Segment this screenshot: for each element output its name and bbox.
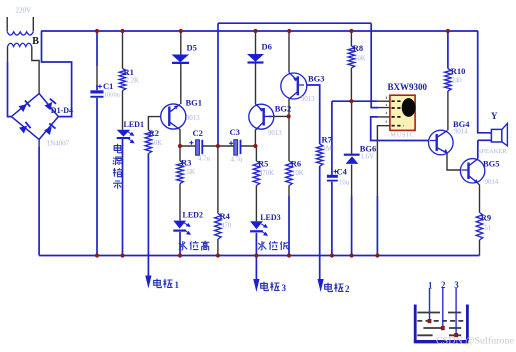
- svg-text:1N4007: 1N4007: [47, 140, 70, 148]
- svg-text:R2: R2: [149, 128, 159, 138]
- svg-text:C4: C4: [337, 167, 348, 177]
- svg-text:240: 240: [452, 78, 463, 85]
- svg-text:2.2K: 2.2K: [126, 78, 139, 85]
- svg-text:LED3: LED3: [260, 213, 280, 222]
- svg-text:LED1: LED1: [124, 120, 144, 129]
- svg-text:4.7u: 4.7u: [198, 156, 210, 163]
- svg-text:C1: C1: [103, 81, 113, 91]
- svg-text:R9: R9: [481, 213, 491, 223]
- svg-text:51: 51: [485, 225, 492, 232]
- svg-text:BG3: BG3: [308, 74, 325, 84]
- svg-text:R6: R6: [291, 159, 301, 169]
- svg-text:BG2: BG2: [275, 104, 292, 114]
- svg-text:2: 2: [441, 280, 446, 290]
- svg-text:220V: 220V: [16, 7, 32, 15]
- svg-text:BG1: BG1: [186, 98, 203, 108]
- svg-text:MUSIC: MUSIC: [391, 133, 415, 139]
- svg-text:D1-D4: D1-D4: [51, 106, 73, 115]
- svg-text:BG4: BG4: [453, 119, 470, 129]
- svg-text:D5: D5: [187, 43, 197, 53]
- svg-text:9013: 9013: [186, 115, 200, 122]
- svg-text:BXW9300: BXW9300: [388, 82, 428, 92]
- svg-text:R5: R5: [258, 159, 268, 169]
- svg-text:R8: R8: [353, 43, 363, 53]
- svg-text:1.6V: 1.6V: [361, 154, 374, 161]
- svg-text:470K: 470K: [259, 170, 274, 177]
- svg-text:Y: Y: [491, 111, 498, 121]
- svg-text:10K: 10K: [151, 140, 163, 147]
- svg-text:3: 3: [282, 283, 287, 293]
- svg-text:BG5: BG5: [483, 159, 500, 169]
- svg-text:1M: 1M: [323, 146, 332, 153]
- svg-text:C3: C3: [230, 127, 240, 137]
- svg-text:R1: R1: [124, 67, 134, 77]
- svg-text:4.7u: 4.7u: [231, 157, 243, 164]
- svg-text:3: 3: [454, 280, 459, 290]
- svg-text:D6: D6: [262, 42, 272, 52]
- svg-text:7.5K: 7.5K: [182, 169, 195, 176]
- svg-text:CSDN @Sulfurone: CSDN @Sulfurone: [436, 336, 514, 346]
- svg-text:470: 470: [221, 223, 232, 230]
- svg-text:10K: 10K: [354, 56, 366, 63]
- svg-text:B: B: [32, 36, 39, 47]
- svg-text:LED2: LED2: [183, 211, 203, 220]
- svg-text:BG6: BG6: [360, 144, 377, 154]
- svg-text:R3: R3: [181, 158, 191, 168]
- svg-text:9013: 9013: [301, 96, 315, 103]
- svg-text:2: 2: [345, 284, 350, 294]
- svg-text:SPEAKER: SPEAKER: [478, 148, 508, 155]
- svg-text:1: 1: [175, 280, 180, 290]
- svg-text:1: 1: [428, 281, 433, 291]
- svg-text:9014: 9014: [454, 129, 468, 136]
- svg-text:9013: 9013: [268, 130, 282, 137]
- svg-text:10K: 10K: [292, 170, 304, 177]
- svg-text:C2: C2: [193, 128, 203, 138]
- svg-text:R7: R7: [322, 135, 333, 145]
- svg-text:R10: R10: [451, 66, 466, 76]
- svg-text:R4: R4: [220, 211, 231, 221]
- svg-text:1000u: 1000u: [104, 92, 121, 99]
- svg-text:9014: 9014: [485, 179, 499, 186]
- svg-text:10u: 10u: [339, 180, 350, 187]
